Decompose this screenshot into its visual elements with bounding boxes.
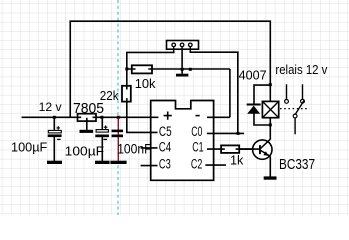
svg-text:C4: C4 <box>159 140 171 156</box>
pin stubs inside IC <box>151 117 214 165</box>
node junction rail cap1 <box>53 116 56 119</box>
relay linkage dotted line <box>280 108 310 110</box>
ground bar under C2 <box>95 161 110 164</box>
node junction diode relay collector <box>269 123 272 126</box>
wire 22k to C5 pin (crosses rail) <box>127 69 158 132</box>
node junction connector middle ground <box>181 68 184 71</box>
resistor 22k <box>122 86 131 102</box>
wire C2 pin stub <box>205 164 226 166</box>
capacitor C2 100uF electrolytic <box>95 125 109 139</box>
wire C1 pin through 1k to base <box>207 148 259 150</box>
svg-text:100µF: 100µF <box>11 141 48 155</box>
svg-text:22k: 22k <box>100 89 119 103</box>
wire C3 pin stub <box>141 165 158 167</box>
svg-text:12 v: 12 v <box>39 100 63 114</box>
connector J1 3-pin <box>167 41 199 50</box>
relay contact fixed 1 <box>285 84 289 103</box>
relay K1 coil box <box>262 101 278 117</box>
pin label minus <box>196 115 200 117</box>
svg-text:7805: 7805 <box>73 101 104 117</box>
svg-text:100µF: 100µF <box>65 144 104 159</box>
wire diode branch lower <box>254 113 270 125</box>
wire 7805 ground pin <box>86 121 88 130</box>
op-amp U1 microcontroller box with notch <box>151 101 214 181</box>
wire connector left pin to node A <box>127 46 174 69</box>
resistor 1k <box>221 145 239 153</box>
svg-text:C3: C3 <box>159 156 171 172</box>
svg-text:BC337: BC337 <box>279 157 315 173</box>
regulator 7805 box <box>78 114 97 121</box>
page boundary guide (teal dashed) <box>117 0 119 215</box>
wire diode branch upper <box>254 85 270 104</box>
capacitor C1 100uF electrolytic <box>48 126 62 139</box>
node red junction on +5V rail <box>117 116 120 119</box>
relay armature common contact <box>293 100 304 134</box>
node junction C0 net <box>237 132 240 135</box>
ground bar under emitter <box>264 176 277 179</box>
svg-text:C2: C2 <box>191 156 202 172</box>
wire C4 pin stub <box>141 147 158 149</box>
wire ground net to IC minus pin <box>207 69 230 117</box>
wire ground net under connector <box>127 68 230 70</box>
resistor 10k <box>132 65 152 73</box>
svg-text:4007: 4007 <box>239 68 267 83</box>
wire C0 pin <box>207 132 244 134</box>
capacitor C3 100nF ceramic <box>112 130 123 138</box>
svg-text:100nF: 100nF <box>117 141 151 156</box>
wire +5V rail from regulator to IC plus pin <box>93 116 158 118</box>
wire C2 cap branch <box>101 117 103 161</box>
wire 12v input rail <box>22 116 80 118</box>
wire (selected, red) rail to ground through C3 cap <box>117 117 119 161</box>
svg-text:C0: C0 <box>191 124 202 140</box>
wire relay coil bottom to collector <box>269 118 271 140</box>
node junction 12v loop diode <box>269 83 272 86</box>
node junction rail cap2 <box>100 116 103 119</box>
wire connector middle pin to ground <box>181 46 183 74</box>
ground bar under connector <box>176 74 188 77</box>
svg-text:relais 12 v: relais 12 v <box>275 63 328 77</box>
ground bar under 7805 <box>80 130 94 133</box>
svg-text:1k: 1k <box>230 154 244 168</box>
svg-text:10k: 10k <box>135 76 156 91</box>
ground bar under C3 <box>110 161 126 164</box>
wire connector right pin to C0 <box>190 46 238 133</box>
ground bar under C1 <box>47 161 62 164</box>
node A junction 22k 10k connector-left <box>125 67 128 70</box>
relay contact fixed 2 <box>301 84 305 103</box>
wire C1 cap branch <box>53 117 55 161</box>
diode D1 4007 <box>247 104 261 114</box>
node square marker on ground net <box>189 68 192 71</box>
transistor Q1 BC337 <box>239 139 272 177</box>
wire relay top feed <box>269 85 271 102</box>
wire outer feedback loop 12v <box>70 21 270 117</box>
svg-text:C1: C1 <box>192 140 203 156</box>
svg-text:C5: C5 <box>159 124 172 140</box>
pin label plus <box>164 112 172 120</box>
